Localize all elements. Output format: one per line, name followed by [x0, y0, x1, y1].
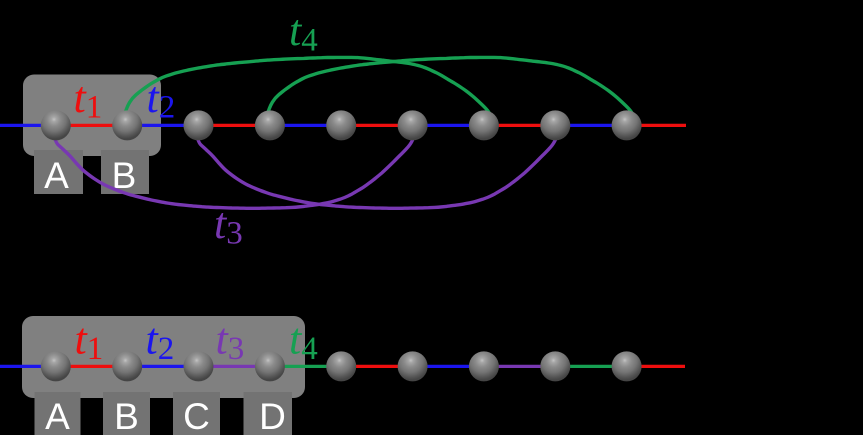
svg-text:D: D	[259, 396, 286, 435]
svg-text:B: B	[114, 396, 139, 435]
svg-text:A: A	[45, 396, 70, 435]
svg-text:C: C	[183, 396, 210, 435]
svg-text:A: A	[44, 155, 69, 196]
